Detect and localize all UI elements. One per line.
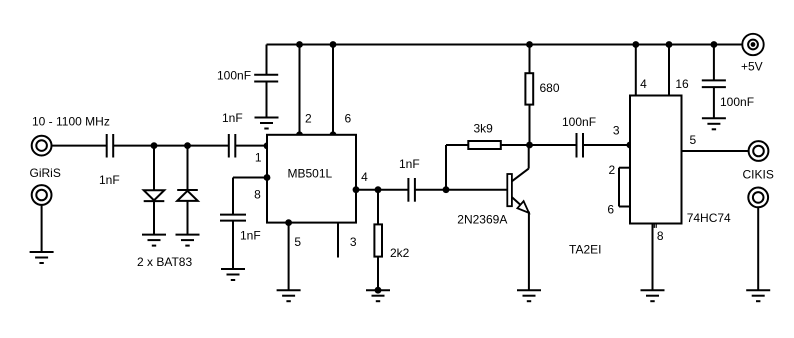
ground (right 100nF) [702,118,726,129]
wire cap to base node [415,145,507,193]
svg-text:4: 4 [640,77,647,91]
resistor 3k9 [468,122,529,150]
svg-text:4: 4 [361,170,368,184]
svg-text:1: 1 [255,151,262,165]
ground (pin 8 1nF) [221,269,245,280]
svg-text:100nF: 100nF [562,115,596,129]
connector RF input 10 - 1100 MHz [32,115,110,156]
svg-text:GiRiS: GiRiS [30,166,61,180]
svg-text:2: 2 [609,163,616,177]
svg-text:5: 5 [690,133,697,147]
IC U1 MB501L prescaler [267,135,356,223]
diode BAT83 (right, cathode up) [177,146,198,235]
capacitor 100nF (VCC decoupling at MB501L) [217,45,278,118]
wire 74HC74 pin 2 to pin 6 feedback loop [607,163,630,217]
transistor Q1 2N2369A [457,145,529,290]
svg-text:100nF: 100nF [217,69,251,83]
ground (GiRiS) [30,252,54,263]
svg-text:6: 6 [607,203,614,217]
svg-text:1nF: 1nF [222,111,243,125]
capacitor 1nF (series to transistor base) [399,157,420,202]
svg-text:MB501L: MB501L [288,167,333,181]
connector GiRiS [30,166,61,205]
svg-text:3: 3 [613,124,620,138]
svg-text:8: 8 [657,229,664,243]
svg-text:8: 8 [254,188,261,202]
svg-text:+5V: +5V [741,60,763,74]
wire 74HC74 pin 4 to VCC [632,41,647,95]
connector +5V [741,34,764,74]
svg-text:16: 16 [675,77,689,91]
wire 74HC74 pin 8 to ground [653,224,664,291]
capacitor 1nF (series input) [99,134,120,187]
diode BAT83 (left, cathode down) [144,146,165,235]
connector CIKIS ground side [748,188,768,208]
ground (74HC74 pin 8) [641,290,665,301]
svg-text:CIKIS: CIKIS [743,168,774,182]
svg-text:1nF: 1nF [240,229,261,243]
capacitor 100nF (series to 74HC74 pin 3) [530,115,634,158]
wire MB501L pin 6 to VCC [330,41,352,138]
wire CIKIS shield to ground [757,207,759,290]
svg-text:1nF: 1nF [99,173,120,187]
svg-text:74HC74: 74HC74 [687,211,731,225]
svg-text:2 x BAT83: 2 x BAT83 [137,255,192,269]
resistor 680 [525,41,559,148]
svg-text:3k9: 3k9 [474,122,494,136]
wire MB501L pin 3 stub (open) [338,223,357,258]
wire C1 to C2 [114,142,229,149]
svg-text:TA2EI: TA2EI [569,243,601,257]
capacitor 1nF (pin 8 decoupling) [220,215,261,269]
svg-text:1nF: 1nF [399,157,420,171]
svg-text:6: 6 [345,112,352,126]
ground (left BAT83) [142,235,166,246]
svg-text:2: 2 [305,112,312,126]
wire input connector to C1 [52,145,107,147]
wire 74HC74 pin 16 to VCC [666,41,689,95]
wire MB501L pin 5 to ground [285,219,301,290]
wire MB501L pin 8 decoupling branch [233,174,270,214]
svg-text:2N2369A: 2N2369A [457,213,507,227]
wire MB501L pin 4 output [353,170,408,193]
capacitor 100nF (VCC decoupling at 74HC74) [702,41,754,118]
svg-text:10 - 1100 MHz: 10 - 1100 MHz [32,115,110,129]
ground (below left 100nF) [255,118,279,129]
svg-text:680: 680 [540,81,560,95]
ground (CIKIS) [746,290,770,301]
wire GiRiS to ground [41,205,43,252]
connector CIKIS output [743,141,774,181]
capacitor 1nF (series before pin 1) [222,111,243,158]
svg-text:3: 3 [350,235,357,249]
ground (right BAT83) [137,235,200,269]
ground (MB501L pin 5) [277,290,301,301]
IC U2 74HC74 flip-flop [569,96,731,257]
ground (transistor emitter) [517,290,541,301]
wire VCC top rail [267,44,744,46]
wire C2 to MB501L pin 1 [236,142,271,164]
svg-text:100nF: 100nF [720,95,754,109]
wire 74HC74 pin 5 output to CIKIS [682,133,749,151]
svg-text:5: 5 [294,235,301,249]
resistor 2k2 [374,190,409,291]
ground (2k2, with junction dot) [366,287,390,301]
svg-text:2k2: 2k2 [390,246,410,260]
wire MB501L pin 2 to VCC [296,41,312,138]
